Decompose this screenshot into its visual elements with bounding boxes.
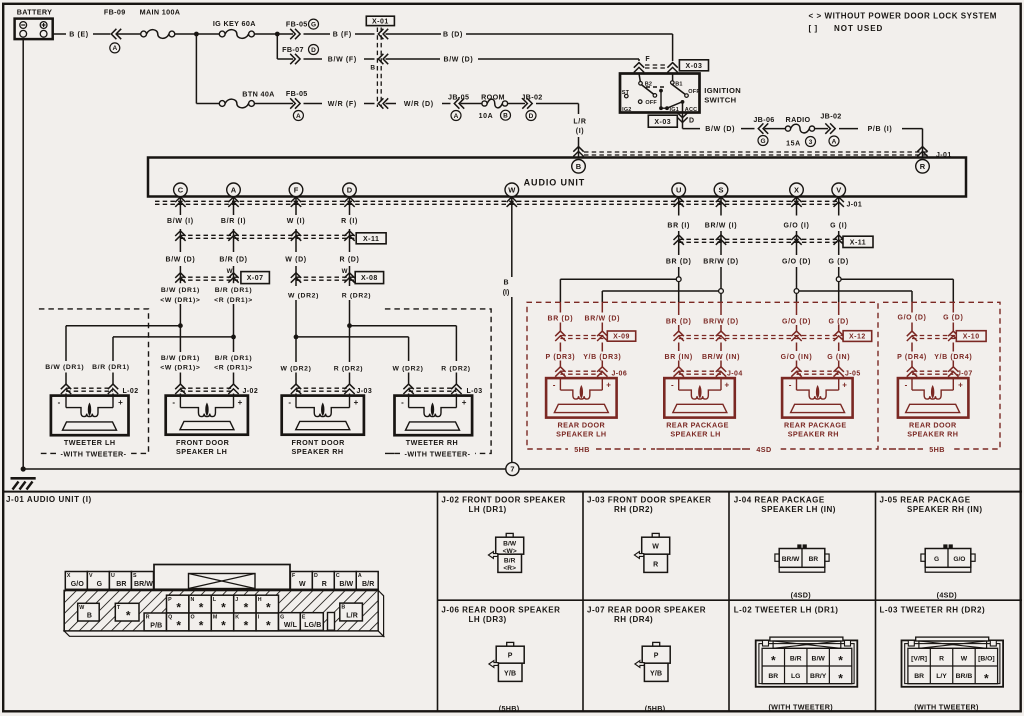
fuse RADIO 15A bbox=[765, 115, 816, 147]
svg-text:SPEAKER RH: SPEAKER RH bbox=[292, 447, 344, 456]
svg-text:X-11: X-11 bbox=[363, 236, 379, 243]
svg-text:(4SD): (4SD) bbox=[791, 590, 812, 599]
svg-text:X-03: X-03 bbox=[654, 119, 671, 126]
wire B(E) battery to FB-09 bbox=[53, 32, 141, 39]
connector face L-02 bbox=[756, 637, 858, 712]
audio unit pin F bbox=[289, 183, 303, 197]
svg-text:C: C bbox=[178, 186, 184, 195]
svg-text:+: + bbox=[118, 398, 123, 407]
svg-text:LG/B: LG/B bbox=[304, 622, 321, 629]
svg-text:B (E): B (E) bbox=[69, 32, 89, 39]
label row tweeter LH wires bbox=[45, 364, 129, 371]
node V branch to rear door RH bbox=[836, 277, 953, 282]
J-01 pin K bbox=[234, 613, 256, 633]
svg-text:REAR PACKAGE: REAR PACKAGE bbox=[784, 421, 847, 430]
J-01 pin B bbox=[340, 603, 363, 621]
svg-text:W (I): W (I) bbox=[287, 218, 305, 225]
svg-text:P/B (I): P/B (I) bbox=[868, 126, 893, 133]
dashed body box 5HB right bbox=[883, 302, 1000, 454]
svg-text:F: F bbox=[294, 186, 299, 195]
svg-text:REAR DOOR: REAR DOOR bbox=[558, 421, 606, 430]
svg-text:SPEAKER RH (IN): SPEAKER RH (IN) bbox=[907, 505, 983, 514]
svg-text:P: P bbox=[654, 653, 659, 660]
label row rear door RH wires (D) bbox=[897, 315, 963, 322]
svg-text:-: - bbox=[671, 381, 674, 390]
audio unit U1 bbox=[148, 158, 966, 197]
svg-text:BR/W (D): BR/W (D) bbox=[703, 258, 739, 265]
svg-text:REAR DOOR: REAR DOOR bbox=[909, 421, 957, 430]
connector X-09 bbox=[555, 331, 636, 341]
svg-text:B/R (D): B/R (D) bbox=[219, 256, 247, 263]
svg-text:IG KEY 60A: IG KEY 60A bbox=[213, 19, 256, 28]
J-01 pin N bbox=[189, 595, 211, 615]
svg-text:B/R: B/R bbox=[362, 581, 374, 588]
svg-text:FRONT DOOR: FRONT DOOR bbox=[292, 438, 346, 447]
connector face J-02 bbox=[488, 533, 523, 572]
svg-text:P: P bbox=[508, 653, 513, 660]
J-01 pin T bbox=[115, 603, 139, 622]
svg-text:R (DR2): R (DR2) bbox=[441, 365, 470, 372]
svg-text:IGNITION: IGNITION bbox=[704, 86, 741, 95]
svg-text:D: D bbox=[689, 117, 694, 124]
svg-text:G (D): G (D) bbox=[829, 318, 849, 325]
svg-text:W/R (F): W/R (F) bbox=[328, 101, 357, 108]
connector L-02 bbox=[61, 384, 139, 395]
J-01 pin M bbox=[211, 613, 233, 633]
wire column S bbox=[720, 197, 722, 379]
wire B(D) to ignition switch B1 bbox=[386, 32, 673, 61]
svg-text:<W>: <W> bbox=[503, 548, 517, 555]
svg-text:A: A bbox=[454, 113, 459, 120]
svg-text:R: R bbox=[939, 655, 944, 662]
svg-text:J-02: J-02 bbox=[243, 388, 259, 395]
svg-text:15A: 15A bbox=[786, 140, 801, 147]
svg-text:+: + bbox=[958, 381, 963, 390]
svg-text:*: * bbox=[266, 619, 271, 633]
svg-text:L-03: L-03 bbox=[467, 388, 483, 395]
svg-text:+: + bbox=[238, 398, 243, 407]
label row front speaker wires (D) bbox=[165, 256, 359, 263]
dashed option box tweeter LH bbox=[39, 309, 149, 459]
svg-text:-WITH TWEETER-: -WITH TWEETER- bbox=[61, 449, 127, 458]
svg-text:*: * bbox=[126, 609, 131, 623]
speaker tweeter LH bbox=[51, 396, 129, 447]
svg-text:G/O (I): G/O (I) bbox=[784, 222, 810, 229]
panel title L-02 bbox=[734, 606, 839, 615]
svg-text:JB-02: JB-02 bbox=[820, 111, 841, 120]
svg-text:FB-05: FB-05 bbox=[286, 20, 308, 29]
svg-text:-: - bbox=[401, 398, 404, 407]
svg-text:FB-07: FB-07 bbox=[282, 45, 304, 54]
svg-text:A: A bbox=[112, 45, 117, 52]
connector J-06 bbox=[555, 367, 627, 378]
panel title J-07 bbox=[587, 606, 706, 624]
svg-text:-: - bbox=[789, 381, 792, 390]
J-01 crossing chevron bbox=[291, 197, 301, 207]
svg-text:BR/W (I): BR/W (I) bbox=[705, 222, 737, 229]
svg-text:TWEETER LH: TWEETER LH bbox=[64, 438, 116, 447]
svg-text:ST: ST bbox=[622, 90, 630, 96]
svg-text:-: - bbox=[58, 398, 61, 407]
svg-text:BATTERY: BATTERY bbox=[17, 8, 53, 17]
svg-text:G/O: G/O bbox=[953, 556, 965, 563]
connector face J-05 bbox=[921, 544, 975, 599]
svg-text:X-10: X-10 bbox=[963, 334, 980, 341]
svg-text:+: + bbox=[842, 381, 847, 390]
wire battery to ground bbox=[22, 39, 24, 469]
svg-text:B/W: B/W bbox=[503, 540, 517, 547]
audio unit pin D bbox=[343, 183, 357, 197]
svg-text:BR/W (D): BR/W (D) bbox=[703, 318, 739, 325]
svg-text:B/W (I): B/W (I) bbox=[167, 218, 194, 225]
connector JB-06 G bbox=[753, 115, 774, 145]
svg-text:[ ]: [ ] bbox=[809, 24, 818, 33]
svg-text:SPEAKER LH: SPEAKER LH bbox=[670, 430, 720, 439]
panel title L-03 bbox=[880, 606, 986, 615]
svg-text:W: W bbox=[961, 655, 968, 662]
wire tweeter LH legs bbox=[66, 326, 113, 396]
svg-text:<W (DR1)>: <W (DR1)> bbox=[160, 364, 200, 371]
svg-text:*: * bbox=[221, 619, 226, 633]
svg-text:FB-05: FB-05 bbox=[286, 89, 308, 98]
svg-text:J-01: J-01 bbox=[847, 202, 863, 209]
J-01 pin J bbox=[234, 595, 256, 615]
svg-text:S: S bbox=[718, 186, 723, 195]
svg-text:Y/B (DR4): Y/B (DR4) bbox=[934, 354, 972, 361]
svg-text:R (DR2): R (DR2) bbox=[334, 365, 363, 372]
svg-text:SPEAKER LH (IN): SPEAKER LH (IN) bbox=[761, 505, 836, 514]
svg-text:G (D): G (D) bbox=[829, 258, 849, 265]
svg-text:[V/R]: [V/R] bbox=[911, 655, 927, 662]
svg-text:B/W (DR1): B/W (DR1) bbox=[45, 364, 84, 371]
panel title J-04 bbox=[734, 496, 836, 514]
svg-text:BR (D): BR (D) bbox=[666, 258, 692, 265]
node X branch to rear door RH bbox=[794, 289, 912, 294]
svg-text:Y/B (DR3): Y/B (DR3) bbox=[583, 354, 621, 361]
svg-text:L/Y: L/Y bbox=[936, 673, 947, 680]
connector X-12 bbox=[674, 331, 872, 342]
J-01 pin G bbox=[279, 613, 301, 631]
connector JB-02 D bbox=[508, 92, 543, 120]
svg-text:BR/W: BR/W bbox=[782, 556, 800, 563]
svg-text:BR: BR bbox=[768, 673, 778, 680]
svg-text:V: V bbox=[89, 573, 93, 579]
speaker tweeter RH bbox=[395, 396, 473, 447]
J-01 crossing chevron bbox=[834, 197, 844, 207]
wire W/R(D) bbox=[386, 101, 451, 108]
svg-text:5HB: 5HB bbox=[574, 445, 590, 454]
wire column D bbox=[349, 197, 351, 396]
svg-text:J-03: J-03 bbox=[357, 388, 373, 395]
connector X-10 bbox=[907, 331, 986, 342]
audio unit pin B bbox=[572, 160, 586, 174]
svg-text:W (DR2): W (DR2) bbox=[393, 365, 424, 372]
J-01 pin A bbox=[356, 572, 378, 590]
svg-text:BR (IN): BR (IN) bbox=[665, 354, 693, 361]
dashed body box 5HB left bbox=[527, 302, 646, 454]
J-01 crossing chevron bbox=[507, 197, 517, 207]
svg-text:X: X bbox=[67, 573, 71, 579]
svg-text:W (DR2): W (DR2) bbox=[288, 293, 319, 300]
panel title J-06 bbox=[441, 606, 560, 624]
label row front door LH wires bbox=[160, 355, 253, 372]
svg-text:K: K bbox=[235, 615, 239, 621]
svg-text:X-12: X-12 bbox=[849, 334, 866, 341]
connector J-04 bbox=[674, 367, 743, 378]
svg-text:*: * bbox=[838, 671, 843, 685]
svg-text:OFF: OFF bbox=[645, 100, 657, 106]
svg-text:J-07: J-07 bbox=[957, 371, 973, 378]
svg-text:J-03 FRONT DOOR SPEAKER: J-03 FRONT DOOR SPEAKER bbox=[587, 496, 711, 505]
svg-text:AUDIO UNIT: AUDIO UNIT bbox=[524, 177, 586, 187]
wire W/R(F) bbox=[304, 101, 375, 108]
svg-text:SPEAKER LH: SPEAKER LH bbox=[176, 447, 227, 456]
wire column A bbox=[233, 197, 235, 396]
svg-text:(I): (I) bbox=[503, 290, 510, 297]
connector face L-03 bbox=[902, 637, 1004, 712]
connector FB-09 bbox=[104, 8, 126, 53]
ground bbox=[11, 478, 36, 489]
fuse IG KEY 60A bbox=[213, 19, 256, 38]
svg-text:BR (I): BR (I) bbox=[667, 222, 690, 229]
svg-text:BR/B: BR/B bbox=[956, 673, 973, 680]
connector X-08 bbox=[291, 268, 384, 283]
svg-text:D: D bbox=[347, 186, 353, 195]
svg-text:-: - bbox=[288, 398, 291, 407]
svg-text:B/R: B/R bbox=[790, 655, 802, 662]
svg-text:FRONT DOOR: FRONT DOOR bbox=[176, 438, 230, 447]
label row rear wires (D) bbox=[666, 258, 849, 265]
wire rear door LH legs bbox=[560, 279, 602, 378]
svg-text:B/R (I): B/R (I) bbox=[221, 218, 246, 225]
svg-text:W (D): W (D) bbox=[285, 256, 307, 263]
svg-text:SWITCH: SWITCH bbox=[704, 96, 736, 105]
node A branch to tweeter LH bbox=[113, 335, 236, 340]
svg-text:W/L: W/L bbox=[284, 622, 298, 629]
connector FB-07 D bbox=[282, 45, 318, 65]
svg-text:G: G bbox=[280, 614, 284, 620]
svg-text:5HB: 5HB bbox=[929, 445, 945, 454]
svg-text:A: A bbox=[231, 186, 237, 195]
svg-text:<W (DR1)>: <W (DR1)> bbox=[160, 297, 200, 304]
svg-text:D: D bbox=[314, 573, 318, 579]
svg-text:OFF: OFF bbox=[688, 89, 700, 95]
svg-text:P (DR3): P (DR3) bbox=[546, 354, 576, 361]
svg-text:U: U bbox=[676, 186, 681, 195]
svg-text:Q: Q bbox=[168, 615, 172, 621]
svg-text:*: * bbox=[984, 671, 989, 685]
wire column F bbox=[295, 197, 297, 396]
J-01 pin D bbox=[312, 572, 334, 590]
connector face J-03 bbox=[634, 533, 669, 572]
svg-text:LH (DR1): LH (DR1) bbox=[469, 505, 507, 514]
svg-text:-: - bbox=[172, 398, 175, 407]
svg-text:RH (DR4): RH (DR4) bbox=[614, 615, 653, 624]
wire B(F) bbox=[304, 32, 375, 39]
svg-text:B/W (D): B/W (D) bbox=[165, 256, 195, 263]
dashed body box 4SD bbox=[651, 302, 878, 454]
connector J-07 bbox=[907, 367, 973, 378]
wire P/B(1) to audio unit pin R bbox=[839, 126, 928, 157]
J-01 pin X bbox=[65, 572, 87, 590]
svg-text:(4SD): (4SD) bbox=[937, 590, 958, 599]
audio unit pin X bbox=[790, 183, 804, 197]
J-01 pin Q bbox=[167, 613, 189, 633]
connector J-01 dashed line bottom bbox=[155, 201, 862, 208]
svg-text:R: R bbox=[653, 562, 658, 569]
svg-text:B: B bbox=[341, 605, 345, 611]
svg-text:J: J bbox=[235, 597, 238, 603]
svg-text:L-02: L-02 bbox=[123, 388, 139, 395]
svg-text:L-03 TWEETER RH (DR2): L-03 TWEETER RH (DR2) bbox=[880, 606, 986, 615]
node S branch to rear door LH bbox=[602, 289, 723, 294]
connector JB-02 A radio bbox=[815, 111, 842, 146]
connector X-11 left bbox=[175, 231, 386, 244]
svg-text:+: + bbox=[606, 381, 611, 390]
svg-text:W: W bbox=[227, 268, 233, 275]
connector face J-01 hatched body bbox=[64, 591, 383, 637]
svg-text:SPEAKER RH: SPEAKER RH bbox=[907, 430, 958, 439]
svg-text:BR/W (D): BR/W (D) bbox=[585, 315, 621, 322]
svg-text:B/W (DR1): B/W (DR1) bbox=[161, 287, 200, 294]
svg-text:JB-05: JB-05 bbox=[448, 92, 469, 101]
svg-text:J-04: J-04 bbox=[727, 371, 743, 378]
J-01 pin F bbox=[290, 572, 312, 590]
svg-text:NOT USED: NOT USED bbox=[834, 24, 883, 33]
node main junction bbox=[194, 32, 199, 37]
svg-text:*: * bbox=[199, 619, 204, 633]
svg-text:D: D bbox=[311, 47, 316, 54]
svg-text:B: B bbox=[370, 64, 375, 71]
svg-text:B (D): B (D) bbox=[443, 32, 463, 39]
svg-text:X-09: X-09 bbox=[613, 334, 630, 341]
svg-text:-WITH TWEETER-: -WITH TWEETER- bbox=[405, 449, 471, 458]
audio unit pin S bbox=[714, 183, 728, 197]
audio unit pin W bbox=[505, 183, 519, 197]
wire column V bbox=[838, 197, 840, 379]
J-01 pin V bbox=[87, 572, 109, 590]
panel title J-05 bbox=[880, 496, 983, 514]
svg-text:J-06: J-06 bbox=[612, 371, 628, 378]
svg-text:*: * bbox=[176, 619, 181, 633]
svg-text:A: A bbox=[296, 113, 301, 120]
svg-text:*: * bbox=[771, 654, 776, 668]
battery B+ bbox=[15, 8, 53, 39]
audio unit pin C bbox=[174, 183, 188, 197]
svg-text:IG1: IG1 bbox=[670, 107, 679, 113]
svg-text:G (D): G (D) bbox=[943, 315, 963, 322]
fuse MAIN 100A bbox=[140, 8, 181, 39]
svg-text:J-02 FRONT DOOR SPEAKER: J-02 FRONT DOOR SPEAKER bbox=[441, 496, 565, 505]
svg-text:(I): (I) bbox=[576, 128, 585, 135]
svg-text:BR/Y: BR/Y bbox=[810, 673, 827, 680]
svg-text:BTN 40A: BTN 40A bbox=[242, 89, 274, 98]
svg-text:L/R: L/R bbox=[573, 119, 586, 126]
svg-text:W: W bbox=[652, 544, 659, 551]
audio unit pin R bbox=[916, 160, 930, 174]
J-01 pin U bbox=[109, 572, 131, 590]
svg-text:D: D bbox=[529, 113, 534, 120]
audio unit pin U bbox=[672, 183, 686, 197]
label row rear wires (I) bbox=[667, 222, 847, 229]
connector face J-01 key tab bbox=[154, 565, 290, 590]
svg-text:X-03: X-03 bbox=[686, 63, 703, 70]
svg-text:A: A bbox=[358, 573, 362, 579]
connector X-07 bbox=[175, 268, 269, 283]
svg-text:W: W bbox=[508, 186, 516, 195]
svg-text:J-01 AUDIO UNIT (I): J-01 AUDIO UNIT (I) bbox=[6, 495, 92, 504]
J-01 pin E bbox=[300, 613, 323, 631]
wire column U bbox=[678, 197, 680, 379]
J-01 empty slot bbox=[328, 613, 335, 631]
svg-text:U: U bbox=[111, 573, 115, 579]
J-01 pin H bbox=[256, 595, 278, 615]
svg-text:A: A bbox=[832, 138, 837, 145]
svg-text:B/R (DR1): B/R (DR1) bbox=[215, 355, 253, 362]
wire B/W(F) bbox=[304, 57, 375, 64]
wire to junction bbox=[175, 33, 220, 35]
svg-text:Y/B: Y/B bbox=[504, 671, 516, 678]
panel title J-01 audio unit bbox=[6, 495, 92, 504]
connector L-03 bbox=[403, 384, 482, 395]
node ground 7 bbox=[506, 462, 519, 475]
svg-text:X-01: X-01 bbox=[372, 19, 389, 26]
fuse ROOM 10A B bbox=[461, 92, 511, 120]
svg-text:REAR PACKAGE: REAR PACKAGE bbox=[666, 421, 729, 430]
svg-text:*: * bbox=[838, 654, 843, 668]
svg-text:*: * bbox=[244, 619, 249, 633]
connector J-03 bbox=[291, 384, 372, 395]
label row tweeter RH wires bbox=[393, 365, 471, 372]
svg-text:B/W (DR1): B/W (DR1) bbox=[161, 355, 200, 362]
branch down to FB-07 bbox=[277, 34, 293, 59]
svg-text:B/W (D): B/W (D) bbox=[443, 57, 473, 64]
svg-text:LH (DR3): LH (DR3) bbox=[469, 615, 507, 624]
svg-text:B: B bbox=[503, 113, 508, 120]
svg-text:B/W: B/W bbox=[812, 655, 826, 662]
svg-text:J-05 REAR PACKAGE: J-05 REAR PACKAGE bbox=[880, 496, 971, 505]
svg-text:<R>: <R> bbox=[503, 565, 516, 572]
svg-text:R: R bbox=[322, 581, 327, 588]
speaker rear package LH bbox=[664, 378, 735, 439]
J-01 crossing chevron bbox=[716, 197, 726, 207]
svg-text:SPEAKER LH: SPEAKER LH bbox=[556, 430, 606, 439]
svg-text:B/R: B/R bbox=[504, 557, 516, 564]
J-01 pin P bbox=[167, 595, 189, 615]
J-01 crossing chevron bbox=[674, 197, 684, 207]
svg-text:< > WITHOUT POWER DOOR LOCK SY: < > WITHOUT POWER DOOR LOCK SYSTEM bbox=[809, 12, 998, 21]
svg-text:G/O: G/O bbox=[71, 581, 85, 588]
speaker rear door RH bbox=[898, 378, 969, 439]
wire B(1) audio unit to ground bbox=[503, 197, 512, 463]
svg-text:(5HB): (5HB) bbox=[499, 704, 520, 713]
svg-text:G/O (IN): G/O (IN) bbox=[781, 354, 813, 361]
svg-text:G (I): G (I) bbox=[830, 222, 847, 229]
svg-text:RADIO: RADIO bbox=[786, 115, 811, 124]
svg-text:G/O (D): G/O (D) bbox=[897, 315, 926, 322]
svg-text:X-07: X-07 bbox=[247, 275, 264, 282]
svg-text:B/R (DR1): B/R (DR1) bbox=[215, 287, 253, 294]
svg-text:+: + bbox=[724, 381, 729, 390]
svg-text:G: G bbox=[760, 138, 765, 145]
audio unit pin A bbox=[227, 183, 241, 197]
svg-text:G: G bbox=[311, 21, 316, 28]
J-01 crossing chevron bbox=[344, 197, 354, 207]
ignition switch bbox=[620, 74, 741, 113]
J-01 crossing chevron bbox=[791, 197, 801, 207]
wire ground bus bbox=[21, 466, 1020, 471]
label row front door RH wires bbox=[281, 365, 364, 372]
